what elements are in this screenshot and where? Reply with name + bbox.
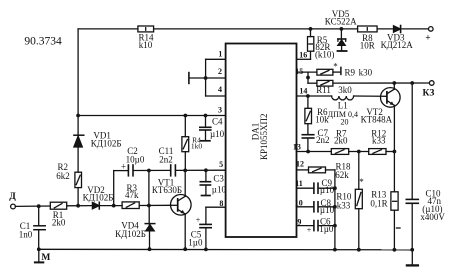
op-amp DA1 IC body (226, 44, 297, 238)
wire C7 to pin 13 row (307, 138, 309, 151)
wire pin3 line to R4 (184, 116, 186, 137)
svg-text:12: 12 (296, 160, 304, 169)
junction right column C6 (333, 224, 337, 228)
svg-text:9: 9 (297, 217, 301, 226)
svg-text:КЗ: КЗ (422, 89, 434, 99)
junction bracket pin2 (204, 76, 208, 80)
svg-text:L1: L1 (338, 100, 348, 110)
wire KZ row down to C10 (411, 83, 413, 199)
svg-text:47k: 47k (125, 190, 139, 200)
junction emitter line R12 (393, 150, 397, 154)
wire emitter line to R13 (393, 152, 395, 192)
svg-text:90.3734: 90.3734 (24, 36, 62, 48)
svg-text:µ10: µ10 (210, 129, 225, 139)
junction pin3 line C4 (204, 114, 208, 118)
junction pin5 wire node B (147, 169, 151, 173)
capacitor C5 (205, 207, 207, 224)
wire right column vertical (334, 170, 336, 250)
svg-text:µ10: µ10 (320, 185, 335, 195)
capacitor C7 (302, 134, 314, 136)
svg-text:+: + (307, 226, 312, 235)
svg-text:КД102Б: КД102Б (115, 229, 146, 239)
wire pin 16 stub (297, 58, 311, 60)
svg-text:1: 1 (218, 50, 222, 59)
svg-text:Д: Д (9, 192, 16, 202)
junction KZ row C10 (410, 81, 414, 85)
svg-text:2n2: 2n2 (159, 154, 173, 164)
capacitor C3 (205, 170, 207, 181)
svg-text:(k10): (k10) (315, 49, 335, 59)
terminal plus output (429, 27, 434, 32)
svg-text:10R: 10R (360, 41, 375, 51)
transistor VT2 (381, 88, 401, 108)
wire VT2 emitter down (393, 105, 395, 151)
junction rail C10 (410, 248, 414, 252)
wire top supply rail from left branch to R14 (78, 28, 138, 30)
svg-text:1µ0: 1µ0 (319, 224, 334, 234)
svg-text:x400V: x400V (420, 212, 445, 222)
svg-text:КС522А: КС522А (325, 17, 357, 27)
node open stub terminal after R9 (340, 67, 342, 74)
wire R6 to C7 (307, 124, 309, 135)
svg-text:10: 10 (295, 199, 303, 208)
junction pin3 line R4 (184, 114, 188, 118)
capacitor C4 (205, 116, 207, 128)
svg-text:*: * (333, 62, 338, 72)
junction right column C9 (333, 186, 337, 190)
wire R3 to VT1 base (139, 204, 171, 206)
svg-text:5: 5 (219, 160, 223, 169)
svg-text:k10: k10 (139, 40, 153, 50)
wire top rail from R8 to VD3 (377, 28, 393, 30)
junction pin15 split (306, 76, 310, 80)
svg-text:R11: R11 (316, 85, 331, 95)
resistor R11 (317, 80, 333, 86)
resistor R1 (50, 202, 66, 209)
wire VD4 to common rail (148, 225, 150, 231)
junction pin13 C7 (306, 150, 310, 154)
svg-text:k33: k33 (372, 136, 386, 146)
svg-text:14: 14 (299, 86, 307, 95)
wire C9 to right column (318, 187, 335, 189)
terminal D input (11, 204, 16, 209)
wire R12 to emitter line (386, 151, 394, 153)
wire left vertical branch from top rail to VD1 (77, 29, 79, 134)
svg-text:КД102Б: КД102Б (83, 193, 114, 203)
svg-text:6k2: 6k2 (56, 171, 70, 181)
wire R13 to common rail (393, 210, 395, 250)
wire pin 14 to L1 (297, 95, 332, 97)
svg-text:4: 4 (218, 85, 222, 94)
junction rail right column (333, 248, 337, 252)
node open stub terminal at pin 2 (189, 77, 205, 79)
wire VT1 collector riser (184, 170, 186, 196)
svg-text:1k0: 1k0 (191, 141, 203, 150)
wire pin 11 stub (297, 187, 314, 189)
junction input wire C2 riser (112, 204, 116, 208)
svg-text:16: 16 (299, 51, 307, 60)
junction rail C5 (204, 248, 208, 252)
capacitor C8 (313, 202, 315, 212)
svg-text:КД212А: КД212А (381, 40, 414, 50)
junction rail R10 (357, 248, 361, 252)
svg-text:15: 15 (295, 67, 303, 76)
svg-text:КТ630Б: КТ630Б (152, 185, 182, 195)
wire pin 2 stub (206, 77, 226, 79)
wire common rail M (39, 248, 413, 251)
wire top rail to R5 (310, 29, 312, 37)
junction right column C8 (333, 205, 337, 209)
junction base node VD4 (147, 204, 151, 208)
junction pin14 R6 (306, 94, 310, 98)
junction pin3 line left branch (76, 114, 80, 118)
capacitor C6 (313, 221, 315, 231)
wire VD2 to R3 (101, 205, 123, 207)
wire C10 to common rail (411, 204, 413, 250)
svg-text:3: 3 (218, 106, 222, 115)
wire R11 row to KZ terminal (333, 82, 430, 84)
svg-text:µ10: µ10 (320, 205, 335, 215)
wire VT2 collector to KZ row (393, 83, 395, 89)
svg-text:11: 11 (295, 179, 303, 188)
svg-text:1n0: 1n0 (19, 230, 33, 240)
wire pin 13 stub to R7 (297, 151, 332, 153)
wire pin 4 stub (206, 95, 226, 97)
wire R4 to pin5 line (184, 152, 186, 171)
wire C11 to IC pin 5 (176, 169, 226, 171)
wire input terminal to R1 (15, 205, 50, 207)
svg-text:k30: k30 (359, 67, 373, 77)
diode VD2 (92, 202, 99, 208)
junction KZ row VT2 collector (392, 81, 396, 85)
junction pin5 wire VT1 collector (183, 169, 187, 173)
wire pin 15 stub (297, 71, 317, 73)
inductor L1 (332, 96, 354, 100)
wire C2 branch riser (113, 171, 115, 206)
junction rail C1 (37, 247, 41, 251)
svg-text:КД102Б: КД102Б (91, 138, 122, 148)
svg-text:8: 8 (219, 199, 223, 208)
wire R10 to common rail (358, 209, 360, 250)
transistor VT1 (171, 195, 192, 216)
wire R5 to pin 16 (310, 51, 312, 59)
wire pin 14 branch down to R6 (307, 96, 309, 108)
svg-text:2n2: 2n2 (316, 135, 330, 145)
terminal KZ output (429, 81, 434, 86)
wire top supply rail from R14 to R8 (154, 28, 358, 30)
svg-text:C4: C4 (212, 116, 223, 126)
resistor R7 (331, 149, 348, 155)
resistor R8 (358, 26, 378, 32)
wire pin 15 down-jog to R11 row (307, 72, 309, 83)
svg-text:20: 20 (341, 117, 349, 126)
diode VD3 (394, 26, 401, 32)
wire riser corner to C2 (114, 170, 129, 172)
capacitor C9 (313, 183, 315, 193)
svg-text:+: + (425, 34, 430, 44)
capacitor C10 (406, 198, 418, 200)
resistor R9 (317, 69, 333, 75)
wire R18 to right column (326, 169, 335, 171)
ground right stub (411, 250, 413, 265)
wire VD1 to R2 (77, 147, 79, 172)
diode VD5 zener (340, 29, 342, 39)
junction pin5 wire C3 (204, 168, 208, 172)
junction rail R13 (393, 248, 397, 252)
wire base node to VD4 (148, 206, 150, 223)
wire pin 10 stub (297, 206, 314, 208)
wire pin 12 stub (297, 169, 309, 171)
capacitor C2 (127, 165, 129, 176)
resistor R12 (369, 149, 386, 155)
node minus mark (397, 227, 401, 229)
svg-text:3k0: 3k0 (338, 85, 352, 95)
svg-text:10k: 10k (315, 115, 329, 125)
svg-text:62k: 62k (335, 170, 349, 180)
svg-text:R9: R9 (345, 67, 356, 77)
wire node A down to R10 (358, 152, 360, 190)
svg-text:2: 2 (218, 67, 222, 76)
resistor R10 (355, 189, 362, 208)
svg-text:КТ848А: КТ848А (361, 114, 393, 124)
junction node A R7-R12 (357, 150, 361, 154)
resistor R4 (182, 137, 189, 152)
svg-text:+: + (196, 216, 201, 225)
terminal M stub (38, 249, 40, 261)
resistor R18 (309, 167, 326, 173)
wire R1 to VD2 (67, 205, 93, 207)
wire pin 9 stub (297, 225, 314, 227)
wire bracket joining pins 1-2-4 (205, 59, 207, 96)
wire R2 to input node (77, 188, 79, 206)
wire pin 1 stub (206, 58, 226, 60)
svg-text:10µ0: 10µ0 (126, 154, 145, 164)
wire pin 3 line (78, 115, 226, 117)
wire pin 8 stub (206, 206, 226, 208)
diode VD1 (74, 134, 84, 136)
resistor R3 (122, 202, 139, 209)
svg-text:1µ0: 1µ0 (188, 237, 203, 247)
resistor R2 (75, 172, 82, 187)
resistor R13 (391, 192, 398, 210)
resistor R14 (138, 26, 154, 32)
wire C6 to right column (318, 225, 335, 227)
junction input wire R2 (76, 204, 80, 208)
svg-text:2k0: 2k0 (334, 136, 348, 146)
svg-text:КР1055ХП2: КР1055ХП2 (259, 114, 269, 161)
svg-text:+: + (121, 162, 126, 172)
svg-text:*: * (359, 177, 364, 187)
wire from VD3 to plus terminal (402, 28, 428, 30)
capacitor C11 (170, 165, 172, 176)
wire C8 to right column (318, 206, 335, 208)
wire R9 to open stub (333, 71, 341, 73)
svg-text:µ10: µ10 (212, 185, 227, 195)
junction input wire C1 (37, 204, 41, 208)
resistor R6 (305, 108, 312, 123)
wire C2 to C11 (133, 169, 170, 171)
svg-text:13: 13 (293, 142, 301, 151)
svg-text:0,1R: 0,1R (370, 199, 387, 209)
junction rail VT1 emitter (183, 247, 187, 251)
wire L1 to VT2 base (354, 95, 387, 97)
wire node B riser to base node (148, 171, 150, 206)
junction top rail R5 (309, 27, 313, 31)
wire R7 to R12 (349, 151, 369, 153)
svg-text:k33: k33 (337, 201, 351, 211)
capacitor C1 (38, 206, 40, 225)
junction top rail VD5 (340, 27, 344, 31)
resistor R5 (308, 37, 314, 52)
junction rail VD4 (148, 247, 152, 251)
svg-text:C3: C3 (213, 174, 224, 184)
wire VT1 emitter to common rail (184, 214, 186, 249)
svg-text:2k0: 2k0 (52, 218, 66, 228)
svg-text:М: М (41, 253, 50, 263)
diode VD4 (145, 223, 155, 225)
